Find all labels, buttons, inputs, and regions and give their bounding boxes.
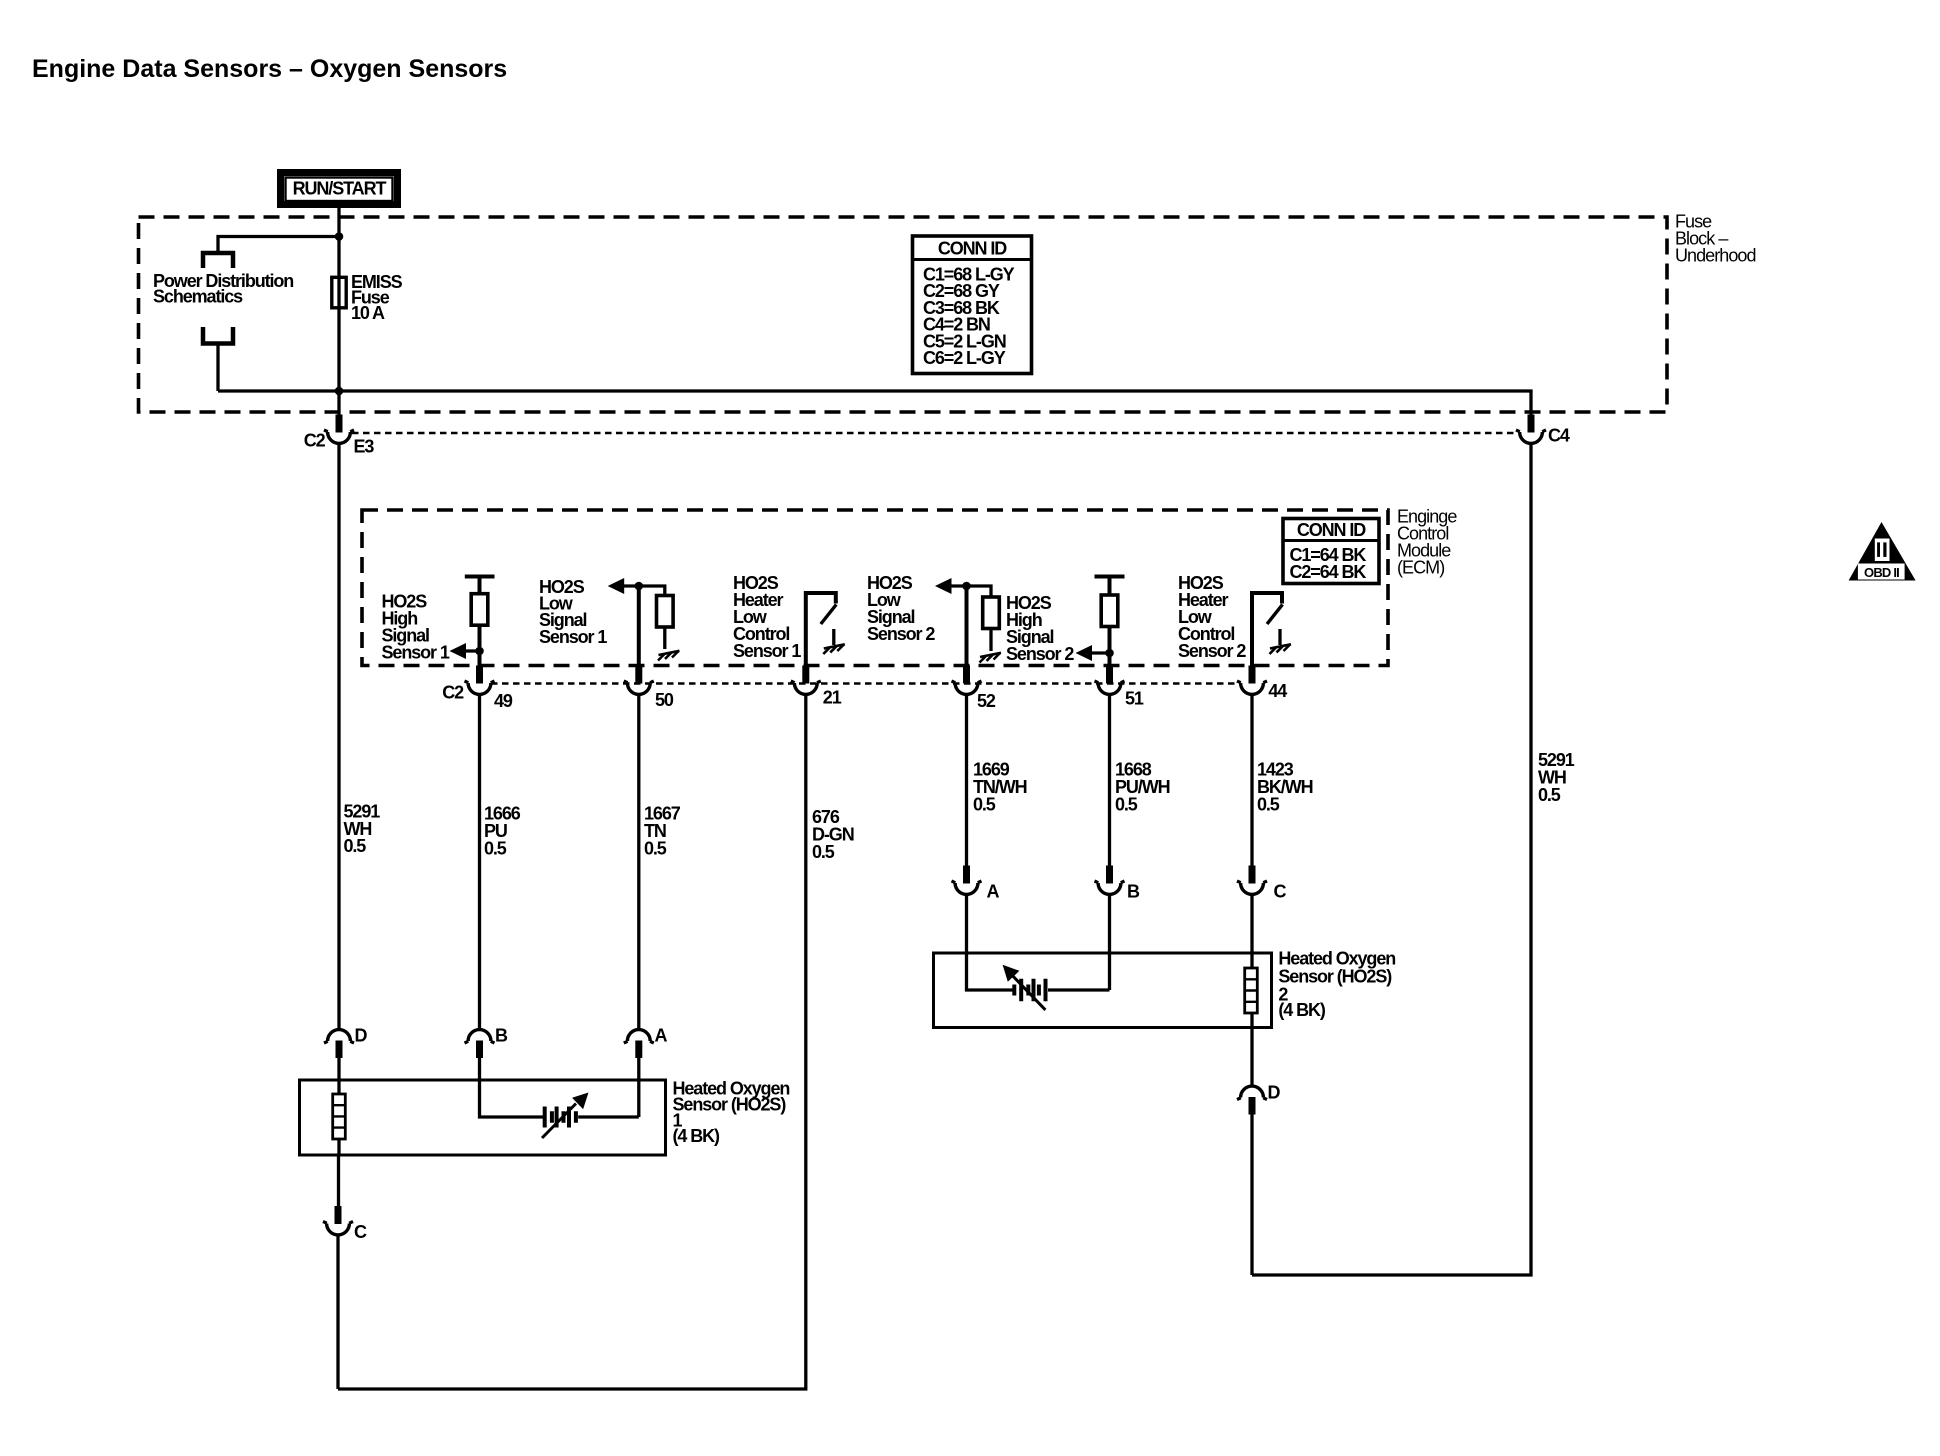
svg-text:(4 BK): (4 BK) <box>1278 1000 1326 1020</box>
wire 1423 BK/WH pin 44 to sensor2 C <box>1250 695 1253 868</box>
svg-text:0.5: 0.5 <box>644 839 667 859</box>
conn id table ECM <box>1283 519 1379 584</box>
svg-text:Sensor 1: Sensor 1 <box>733 641 801 661</box>
svg-text:Sensor 2: Sensor 2 <box>867 624 935 644</box>
wire RUN/START feed into fuse block <box>337 205 340 276</box>
connector D sensor 2 <box>1237 1083 1281 1115</box>
svg-text:C2: C2 <box>304 431 326 451</box>
connector B sensor 1 <box>465 1026 509 1059</box>
ECM input HO2S High Signal Sensor 2 <box>1076 577 1125 667</box>
connector pin 51 ECM <box>1095 666 1144 709</box>
svg-text:0.5: 0.5 <box>484 839 507 859</box>
svg-text:21: 21 <box>823 688 842 708</box>
wire connector A into sensor 1 box <box>637 1057 640 1080</box>
svg-text:Heated Oxygen: Heated Oxygen <box>1278 949 1395 969</box>
svg-text:Sensor 1: Sensor 1 <box>382 643 450 663</box>
fine dotted harness line C2 to C4 <box>352 432 1518 435</box>
wire C to bottom left corner <box>336 1235 339 1389</box>
OBD II marker triangle <box>1849 522 1916 581</box>
label HO2S High Signal Sensor 2 <box>1006 593 1074 664</box>
svg-text:Sensor 2: Sensor 2 <box>1178 641 1246 661</box>
ECM input HO2S High Signal Sensor 1 <box>450 577 495 667</box>
wire 5291 WH left feed <box>337 444 340 1030</box>
svg-text:Engine Data Sensors – Oxygen S: Engine Data Sensors – Oxygen Sensors <box>32 55 507 83</box>
svg-text:0.5: 0.5 <box>1257 795 1280 815</box>
wire label 1669 TN/WH 0.5 <box>973 760 1027 815</box>
wire sensor2 C out to D connector <box>1250 1028 1253 1087</box>
label Power Distribution Schematics <box>153 271 293 307</box>
wire heater circuit inside sensor 2 <box>967 953 1110 990</box>
label HO2S Low Signal Sensor 1 <box>539 577 607 647</box>
svg-text:0.5: 0.5 <box>1115 795 1138 815</box>
svg-text:C6=2 L-GY: C6=2 L-GY <box>923 348 1006 368</box>
wire 5291 WH right feed <box>1252 444 1531 1276</box>
heater element sensor 2 (variable) <box>1003 965 1046 1010</box>
in-box connector 4-way sensor 1 <box>333 1094 346 1139</box>
label HO2S Heater Low Control Sensor 2 <box>1178 573 1246 661</box>
label Engine Control Module ECM <box>1397 507 1457 578</box>
wire label 676 D-GN 0.5 <box>812 807 854 862</box>
wire bracket to bottom rail <box>216 344 219 392</box>
heated oxygen sensor 2 box <box>934 953 1272 1028</box>
ECM driver HO2S Heater Low Control Sensor 1 (switch to ground) <box>806 593 845 666</box>
svg-text:(ECM): (ECM) <box>1397 558 1444 578</box>
fuse EMISS 10A <box>332 277 346 308</box>
svg-text:0.5: 0.5 <box>1538 785 1561 805</box>
label EMISS Fuse 10 A <box>351 272 403 323</box>
svg-text:0.5: 0.5 <box>812 842 835 862</box>
svg-text:CONN ID: CONN ID <box>1297 520 1366 540</box>
wire label 1666 PU 0.5 <box>484 804 521 859</box>
ECM dashed box <box>362 510 1388 666</box>
wire bottom rail of fuse block <box>218 391 1531 415</box>
connector pin 52 ECM <box>952 666 996 712</box>
connector C2 fuse block pin E3 <box>304 415 375 457</box>
connector pin 21 ECM <box>791 666 842 708</box>
connector B sensor 2 <box>1095 866 1141 902</box>
connector D sensor 1 <box>324 1026 368 1059</box>
conn id table fuse block <box>913 236 1032 374</box>
label Heated Oxygen Sensor HO2S 2 (4 BK) <box>1278 949 1395 1020</box>
label HO2S High Signal Sensor 1 <box>382 592 450 663</box>
svg-text:44: 44 <box>1268 681 1287 701</box>
wire connector B into sensor 1 box <box>478 1057 481 1080</box>
node junction at fuse top <box>335 232 344 241</box>
wire label 1423 BK/WH 0.5 <box>1257 760 1313 815</box>
wire connector A into sensor 2 box <box>965 895 968 953</box>
wire connector B into sensor 2 box <box>1108 895 1111 953</box>
connector pin 50 ECM <box>624 666 674 711</box>
wire label 1667 TN 0.5 <box>644 804 681 859</box>
ECM input HO2S Low Signal Sensor 2 <box>935 578 1001 666</box>
off-page connector bottom bracket <box>203 327 233 344</box>
wire connector C into sensor 2 box <box>1250 895 1253 953</box>
wire 1669 TN/WH pin 52 to sensor2 A <box>965 695 968 868</box>
svg-text:CONN ID: CONN ID <box>938 239 1007 259</box>
connector A sensor 1 <box>624 1026 668 1059</box>
ECM driver HO2S Heater Low Control Sensor 2 (switch to ground) <box>1252 593 1291 666</box>
connector pin 49 ECM <box>465 666 513 712</box>
svg-text:A: A <box>655 1026 668 1046</box>
svg-text:Sensor 1: Sensor 1 <box>539 627 607 647</box>
wire C through sensor 2 box <box>1250 953 1253 1028</box>
svg-text:D: D <box>1268 1083 1281 1103</box>
connector A sensor 2 <box>952 866 1000 902</box>
heater element sensor 1 (variable) <box>542 1093 589 1139</box>
svg-text:(4 BK): (4 BK) <box>673 1126 721 1146</box>
svg-text:C2=64 BK: C2=64 BK <box>1290 562 1367 582</box>
fuse block underhood dashed box <box>139 217 1668 412</box>
svg-text:OBD II: OBD II <box>1864 565 1899 580</box>
svg-text:C: C <box>354 1222 367 1242</box>
label Fuse Block - Underhood <box>1675 212 1756 266</box>
svg-text:0.5: 0.5 <box>973 795 996 815</box>
svg-text:50: 50 <box>655 690 674 710</box>
connector C sensor 1 <box>323 1206 367 1242</box>
svg-text:Schematics: Schematics <box>153 287 243 307</box>
svg-text:D: D <box>355 1026 368 1046</box>
node RUN/START voltage source box <box>281 173 398 205</box>
svg-text:Sensor 2: Sensor 2 <box>1006 644 1074 664</box>
heated oxygen sensor 1 box <box>300 1080 666 1155</box>
wire sensor1 D-line down to C connector <box>337 1155 340 1224</box>
node junction rail/C2 drop <box>335 387 344 396</box>
svg-text:B: B <box>495 1026 508 1046</box>
connector C4 fuse block <box>1516 415 1570 446</box>
label Heated Oxygen Sensor HO2S 1 (4 BK) <box>673 1079 790 1147</box>
svg-text:E3: E3 <box>354 437 375 457</box>
svg-text:C4: C4 <box>1548 426 1570 446</box>
svg-text:Sensor (HO2S): Sensor (HO2S) <box>1278 967 1392 987</box>
fine dotted harness line along ECM pins <box>491 682 1240 685</box>
svg-text:B: B <box>1127 882 1140 902</box>
svg-text:51: 51 <box>1125 689 1144 709</box>
in-box connector 4-way sensor 2 <box>1245 968 1258 1013</box>
wire to power distribution bracket <box>218 237 340 252</box>
connector C sensor 2 <box>1237 866 1287 902</box>
wire heater circuit inside sensor 1 <box>480 1080 639 1117</box>
svg-text:RUN/START: RUN/START <box>293 179 387 199</box>
wire 1667 TN pin 50 to sensor1 A <box>637 695 640 1030</box>
svg-text:52: 52 <box>977 691 996 711</box>
wire 1666 PU pin 49 to sensor1 B <box>478 695 481 1030</box>
svg-text:C: C <box>1274 882 1287 902</box>
wire connector D into sensor 1 box <box>337 1057 340 1080</box>
wire fuse to bottom rail and C2 <box>337 306 340 415</box>
wire label 5291 WH 0.5 left <box>344 802 381 857</box>
svg-text:Underhood: Underhood <box>1675 246 1756 266</box>
svg-text:C2: C2 <box>442 683 464 703</box>
off-page connector top bracket <box>203 253 233 268</box>
svg-text:0.5: 0.5 <box>344 836 367 856</box>
svg-text:A: A <box>987 882 1000 902</box>
svg-text:Sensor (HO2S): Sensor (HO2S) <box>673 1095 787 1115</box>
wire D to bottom right corner <box>1250 1114 1253 1275</box>
svg-text:49: 49 <box>494 691 513 711</box>
wire D through sensor 1 box <box>337 1080 340 1155</box>
svg-text:10 A: 10 A <box>351 303 385 323</box>
connector pin 44 ECM <box>1237 666 1287 702</box>
wire label 1668 PU/WH 0.5 <box>1115 760 1170 815</box>
wire 676 D-GN pin 21 to sensor1 C (bottom route) <box>338 695 806 1389</box>
ECM input HO2S Low Signal Sensor 1 <box>608 578 680 666</box>
wire 1668 PU/WH pin 51 to sensor2 B <box>1108 695 1111 868</box>
label HO2S Heater Low Control Sensor 1 <box>733 573 801 661</box>
label HO2S Low Signal Sensor 2 <box>867 573 935 644</box>
wire label 5291 WH 0.5 right <box>1538 750 1575 805</box>
